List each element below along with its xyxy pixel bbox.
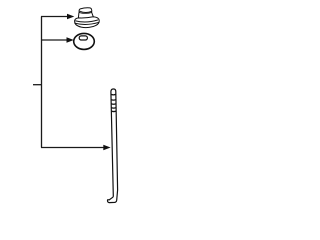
molding strip body [108,89,118,203]
tick mark on leader line [33,84,42,86]
leader vertical line [41,17,43,148]
arrowhead to washer grommet [67,37,74,43]
arrowhead to cap clip [67,14,74,20]
arrowhead to molding strip [103,145,110,151]
branch line to cap clip [41,16,68,18]
cap clip (item 1) [75,8,100,28]
molding strip ribs [111,94,116,111]
washer grommet (item 2) [74,33,95,49]
branch line to washer grommet [41,39,67,41]
branch line to molding strip [41,147,104,149]
